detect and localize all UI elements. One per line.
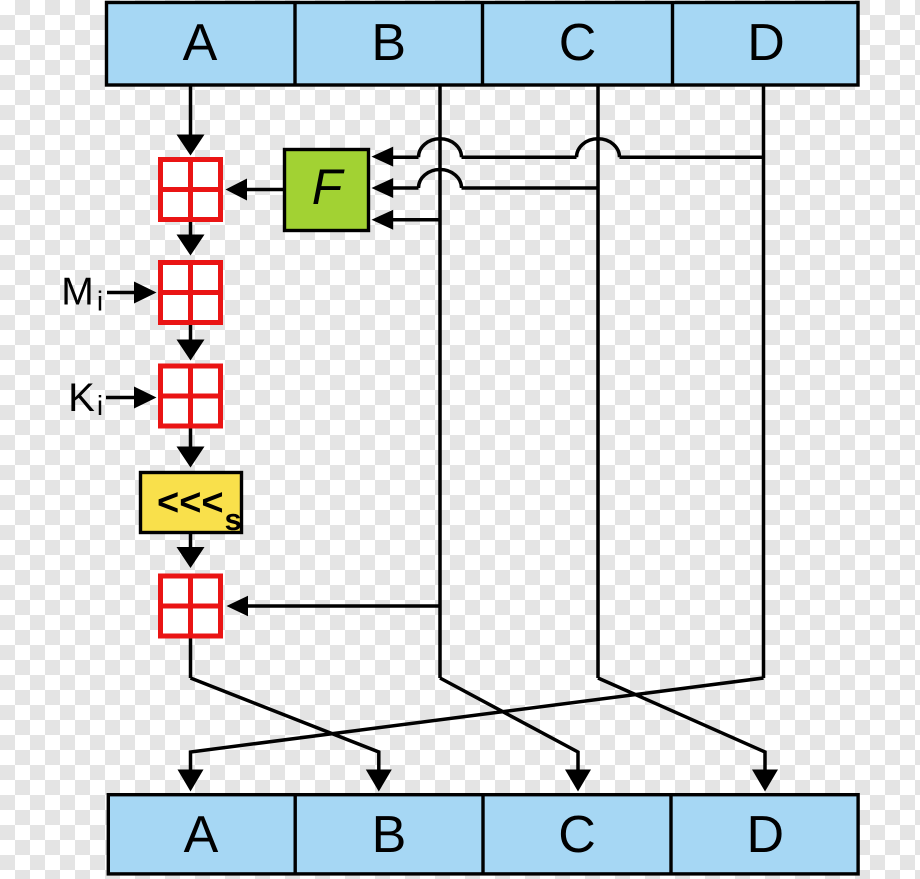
arrowhead: into bottom B — [366, 770, 392, 792]
svg-text:A: A — [184, 806, 219, 864]
bottom register bar — [108, 795, 858, 874]
svg-text:B: B — [372, 806, 407, 864]
wire: C diagonal to new D — [598, 678, 765, 771]
svg-text:<<<: <<< — [157, 482, 224, 524]
wire: F output to add1 — [246, 188, 283, 192]
svg-text:C: C — [559, 14, 597, 72]
wire: D diagonal to new A — [191, 678, 764, 771]
arrowhead: rotate to add4 — [177, 547, 205, 568]
arrowhead: add3 to rotate — [177, 447, 205, 468]
wire: B to F input 3 horizontal — [392, 218, 440, 222]
svg-text:A: A — [183, 14, 218, 72]
adder add1 (modular addition box) — [161, 160, 221, 220]
svg-text:M: M — [61, 271, 94, 314]
arrowhead: add2 to add3 — [177, 340, 205, 361]
wire: C vertical from top bar to bottom bend — [596, 85, 600, 678]
wire: add4 output diagonal to new B — [191, 678, 379, 771]
wire: add2 to add3 — [189, 324, 193, 342]
arrowhead: F input 2 — [372, 178, 394, 198]
wire: D vertical from top bar to bottom bend — [762, 85, 766, 678]
arrowhead: F input 1 — [372, 147, 394, 167]
wire: B tap to add4 horizontal — [247, 604, 440, 608]
wire: C to F input 2 horizontal — [462, 186, 599, 190]
F function box — [285, 150, 369, 231]
arrowhead: F input 3 — [372, 210, 394, 230]
top register bar — [107, 3, 859, 86]
adder add3 — [161, 366, 221, 426]
hop over B on D wire — [419, 139, 462, 158]
arrowhead: add1 to add2 — [177, 235, 205, 256]
svg-text:i: i — [97, 286, 103, 317]
divider top B|C — [481, 3, 484, 86]
adder add4 — [161, 576, 221, 636]
divider top A|B — [293, 3, 296, 86]
wire: rotate box to add4 — [189, 533, 193, 549]
svg-text:s: s — [225, 502, 242, 537]
arrowhead: into bottom D — [752, 770, 778, 792]
divider bottom B|C — [481, 795, 484, 874]
arrowhead: Ki into add3 — [134, 387, 157, 409]
divider bottom A|B — [294, 795, 297, 874]
svg-text:B: B — [371, 14, 406, 72]
wire: A column from top bar down — [189, 85, 193, 137]
hop over B on C wire — [419, 170, 462, 188]
arrowhead: into bottom A — [178, 770, 204, 792]
svg-text:D: D — [747, 806, 785, 864]
wire: B vertical from top bar to bottom bend — [438, 85, 442, 678]
arrowhead: into bottom C — [565, 770, 591, 792]
svg-text:i: i — [97, 390, 103, 421]
hop over C on D wire — [577, 139, 620, 158]
wire: Mi arrow line — [107, 291, 136, 295]
svg-text:D: D — [747, 14, 785, 72]
wire: add3 to rotate box — [189, 428, 193, 449]
svg-text:F: F — [312, 159, 345, 215]
arrowhead: F output into add1 — [226, 179, 248, 201]
wire: B diagonal to new C — [440, 678, 578, 771]
wire: add4 output down — [189, 638, 193, 678]
arrowhead: Mi into add2 — [134, 282, 157, 304]
wire: D to F input 1 horizontal — [620, 156, 764, 160]
svg-text:C: C — [558, 806, 596, 864]
arrowhead: B into add4 — [227, 596, 249, 617]
wire: Ki arrow line — [106, 396, 136, 400]
svg-text:K: K — [68, 376, 95, 420]
adder add2 — [161, 263, 221, 323]
arrowhead: A into add1 — [177, 135, 205, 156]
divider top C|D — [671, 3, 674, 86]
rotate-left box — [141, 473, 242, 533]
wire: add1 to add2 — [189, 221, 193, 238]
divider bottom C|D — [669, 795, 672, 874]
